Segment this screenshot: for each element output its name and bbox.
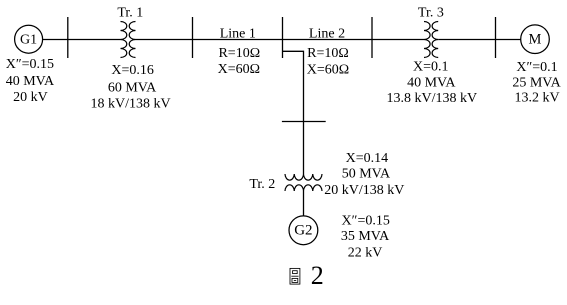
bus B6 [282,121,326,123]
svg-text:X=0.1: X=0.1 [413,59,449,74]
bus B1 [67,17,69,58]
svg-text:18 kV/138 kV: 18 kV/138 kV [91,96,171,111]
svg-text:R=10Ω: R=10Ω [307,46,349,61]
transformer Tr.3 secondary winding [432,22,438,58]
svg-text:22 kV: 22 kV [348,246,383,261]
svg-text:Line 1: Line 1 [220,26,256,41]
svg-text:G1: G1 [20,33,37,48]
svg-text:Tr. 1: Tr. 1 [117,5,143,20]
wire Tr.1 to Tr.3 (Line 1 and Line 2) [136,39,425,41]
svg-text:X″=0.15: X″=0.15 [342,214,390,229]
svg-text:X=60Ω: X=60Ω [307,62,349,77]
svg-text:35 MVA: 35 MVA [341,229,390,244]
svg-text:M: M [529,32,542,48]
svg-text:40 MVA: 40 MVA [407,75,456,90]
svg-text:Line 2: Line 2 [309,27,345,42]
caption figure character (drawn CJK glyph) [290,268,300,284]
svg-text:X=60Ω: X=60Ω [218,62,260,77]
svg-text:25 MVA: 25 MVA [512,75,561,90]
svg-text:X″=0.15: X″=0.15 [6,57,54,72]
svg-text:40 MVA: 40 MVA [6,74,55,89]
wire G1 to Tr.1 [43,39,121,41]
svg-text:50 MVA: 50 MVA [342,167,391,182]
transformer Tr.2 secondary winding [285,185,322,191]
wire Tr.3 to M [438,39,521,41]
svg-text:20 kV/138 kV: 20 kV/138 kV [324,183,404,198]
svg-text:X=0.16: X=0.16 [111,63,154,78]
svg-text:R=10Ω: R=10Ω [218,46,260,61]
bus B4 [371,17,373,58]
wire tap from bus B3 [283,51,304,174]
motor M [521,25,550,54]
transformer Tr.2 primary winding [285,174,322,180]
transformer Tr.1 secondary winding [129,22,135,58]
bus B3 [282,17,284,58]
svg-text:60 MVA: 60 MVA [108,80,157,95]
transformer Tr.3 primary winding [424,22,430,58]
svg-text:Tr. 2: Tr. 2 [249,177,275,192]
bus B5 [495,17,497,58]
transformer Tr.1 primary winding [121,22,127,58]
svg-text:Tr. 3: Tr. 3 [418,6,444,21]
svg-text:X=0.14: X=0.14 [346,151,389,166]
svg-text:13.8 kV/138 kV: 13.8 kV/138 kV [386,91,477,106]
svg-text:20 kV: 20 kV [13,90,48,105]
svg-text:X″=0.1: X″=0.1 [516,60,557,75]
generator G1 [15,25,43,53]
wire Tr.2 to G2 [303,191,305,216]
generator G2 [289,216,318,245]
svg-text:13.2 kV: 13.2 kV [514,91,559,106]
svg-text:G2: G2 [294,223,312,239]
svg-text:2: 2 [311,261,324,290]
bus B2 [192,17,194,58]
